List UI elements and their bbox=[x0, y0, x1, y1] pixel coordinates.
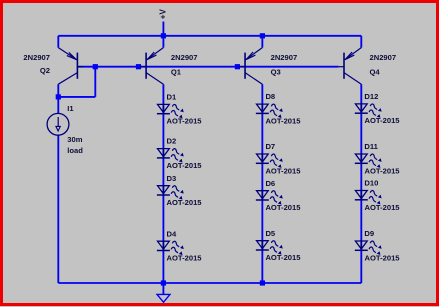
svg-text:Q4: Q4 bbox=[370, 68, 381, 77]
svg-text:D8: D8 bbox=[265, 92, 275, 101]
transistor Q2 bbox=[58, 48, 83, 85]
label D2 bbox=[167, 137, 177, 146]
label D2 AOT-2015 bbox=[167, 161, 203, 170]
label Q1 bbox=[171, 68, 182, 77]
svg-text:2N2907: 2N2907 bbox=[271, 53, 298, 62]
label D12 AOT-2015 bbox=[365, 116, 401, 125]
svg-text:D4: D4 bbox=[167, 229, 177, 238]
label I1 bbox=[67, 104, 74, 113]
svg-text:D5: D5 bbox=[265, 229, 275, 238]
wire base-collector tie vertical bbox=[94, 67, 96, 97]
label D1 bbox=[167, 93, 177, 102]
label D1 AOT-2015 bbox=[167, 117, 203, 126]
label D8 AOT-2015 bbox=[265, 116, 301, 125]
label Q1 2N2907 bbox=[171, 53, 198, 62]
svg-text:AOT-2015: AOT-2015 bbox=[365, 116, 401, 125]
LED D10 bbox=[355, 191, 382, 205]
label I1 value 30m bbox=[67, 135, 82, 144]
svg-text:D7: D7 bbox=[265, 142, 275, 151]
label D11 bbox=[364, 142, 378, 151]
label D4 bbox=[167, 229, 177, 238]
LED D4 bbox=[157, 241, 184, 255]
node junction bottom rail col2 bbox=[260, 280, 265, 285]
label Q4 2N2907 bbox=[370, 53, 397, 62]
wire I1 to bottom rail bbox=[57, 135, 59, 283]
label I1 load bbox=[67, 146, 83, 155]
label D10 bbox=[364, 179, 378, 188]
transistor Q3 bbox=[239, 48, 262, 85]
label D3 bbox=[167, 174, 177, 183]
label D9 bbox=[364, 229, 374, 238]
svg-text:Q1: Q1 bbox=[171, 68, 182, 77]
LED D6 bbox=[256, 191, 283, 205]
svg-text:2N2907: 2N2907 bbox=[171, 53, 198, 62]
LED D9 bbox=[355, 241, 382, 255]
transistor Q1 bbox=[140, 48, 163, 85]
label D10 AOT-2015 bbox=[365, 203, 401, 212]
label D5 AOT-2015 bbox=[265, 253, 301, 262]
svg-text:Q3: Q3 bbox=[271, 68, 281, 77]
svg-text:30m: 30m bbox=[67, 135, 82, 144]
label Q2 bbox=[40, 66, 50, 75]
svg-text:AOT-2015: AOT-2015 bbox=[167, 117, 203, 126]
label D11 AOT-2015 bbox=[365, 166, 401, 175]
svg-text:Q2: Q2 bbox=[40, 66, 50, 75]
node junction top rail Q1/+V bbox=[161, 33, 166, 38]
svg-text:AOT-2015: AOT-2015 bbox=[365, 203, 401, 212]
current source I1 bbox=[47, 113, 69, 135]
svg-text:AOT-2015: AOT-2015 bbox=[265, 166, 301, 175]
svg-text:I1: I1 bbox=[67, 104, 74, 113]
wire Q1 emitter riser bbox=[162, 36, 164, 48]
node junction Q1 base bbox=[136, 64, 141, 69]
LED D7 bbox=[256, 154, 283, 168]
label D5 bbox=[265, 229, 275, 238]
wire +V stub bbox=[162, 22, 164, 36]
svg-text:2N2907: 2N2907 bbox=[23, 53, 50, 62]
svg-text:D3: D3 bbox=[167, 174, 177, 183]
label D7 AOT-2015 bbox=[265, 166, 301, 175]
svg-text:D10: D10 bbox=[364, 179, 378, 188]
label D6 AOT-2015 bbox=[265, 203, 301, 212]
node junction top rail Q3 bbox=[260, 33, 265, 38]
svg-text:D1: D1 bbox=[167, 93, 177, 102]
wire Q2 emitter riser bbox=[57, 36, 59, 48]
svg-text:D6: D6 bbox=[265, 179, 275, 188]
svg-text:D12: D12 bbox=[364, 92, 378, 101]
svg-text:AOT-2015: AOT-2015 bbox=[265, 203, 301, 212]
node junction Q2 base tie bbox=[93, 64, 98, 69]
wire top +V rail bbox=[58, 35, 361, 37]
label D7 bbox=[265, 142, 275, 151]
wire LED string 3 bbox=[360, 84, 362, 283]
wire LED string 1 bbox=[162, 84, 164, 283]
svg-text:2N2907: 2N2907 bbox=[370, 53, 397, 62]
transistor Q4 bbox=[338, 48, 361, 85]
node junction Q3 base bbox=[235, 64, 240, 69]
label D9 AOT-2015 bbox=[365, 253, 401, 262]
svg-text:AOT-2015: AOT-2015 bbox=[265, 116, 301, 125]
svg-text:AOT-2015: AOT-2015 bbox=[167, 161, 203, 170]
ground bbox=[157, 283, 170, 302]
wire Q2 collector drop bbox=[57, 84, 59, 113]
label Q2 2N2907 bbox=[23, 53, 50, 62]
svg-text:AOT-2015: AOT-2015 bbox=[167, 254, 203, 263]
wire base-collector tie horizontal bbox=[58, 96, 95, 98]
svg-text:D11: D11 bbox=[364, 142, 378, 151]
svg-text:AOT-2015: AOT-2015 bbox=[167, 198, 203, 207]
label D6 bbox=[265, 179, 275, 188]
wire LED string 2 bbox=[261, 84, 263, 283]
svg-text:AOT-2015: AOT-2015 bbox=[265, 253, 301, 262]
label Q3 2N2907 bbox=[271, 53, 298, 62]
svg-text:D9: D9 bbox=[364, 229, 374, 238]
node junction bottom rail ground bbox=[161, 280, 166, 285]
LED D5 bbox=[256, 241, 283, 255]
svg-text:load: load bbox=[67, 146, 83, 155]
svg-text:AOT-2015: AOT-2015 bbox=[365, 166, 401, 175]
label D3 AOT-2015 bbox=[167, 198, 203, 207]
label Q4 bbox=[370, 68, 381, 77]
svg-text:+V: +V bbox=[159, 9, 168, 20]
svg-text:AOT-2015: AOT-2015 bbox=[365, 253, 401, 262]
LED D12 bbox=[355, 104, 382, 118]
svg-text:D2: D2 bbox=[167, 137, 177, 146]
LED D1 bbox=[157, 104, 184, 118]
wire Q3 emitter riser bbox=[261, 36, 263, 48]
wire base rail bbox=[77, 66, 338, 68]
LED D11 bbox=[355, 154, 382, 168]
LED D3 bbox=[157, 186, 184, 200]
wire Q4 emitter riser bbox=[360, 36, 362, 48]
node +V label bbox=[159, 9, 168, 20]
label Q3 bbox=[271, 68, 281, 77]
label D8 bbox=[265, 92, 275, 101]
node junction Q2 collector bbox=[56, 94, 61, 99]
LED D2 bbox=[157, 149, 184, 163]
label D4 AOT-2015 bbox=[167, 254, 203, 263]
LED D8 bbox=[256, 104, 283, 118]
wire bottom rail bbox=[58, 282, 361, 284]
label D12 bbox=[364, 92, 378, 101]
